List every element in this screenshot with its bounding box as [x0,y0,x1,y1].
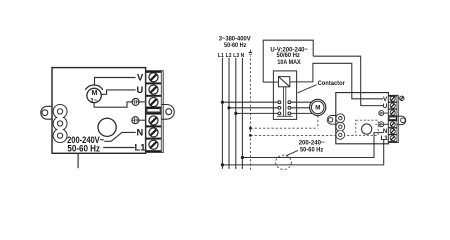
motor M 1~ [85,85,103,104]
svg-text:Contactor: Contactor [318,80,346,87]
jumper link in pole 4 [147,109,160,113]
svg-text:M: M [91,90,97,97]
earth symbol E2 (right) [379,122,389,127]
earth branch to motor (dashed) [250,127,318,129]
svg-text:50-60 Hz: 50-60 Hz [224,42,247,49]
svg-text:V: V [137,73,144,83]
earth symbol (supply) [249,50,253,57]
thermostat enclosure (right) [336,93,389,144]
junction dot earth-motor branch [249,127,252,130]
mounting ear (right thermostat) [327,116,336,125]
terminal block (left, 7 poles) [146,71,163,153]
supply line N [241,58,243,169]
knob (right) [362,124,372,134]
svg-text:50-60 Hz: 50-60 Hz [67,144,100,154]
wire V (motor top to terminal V) [95,78,136,86]
mounting tab right of terminal block [162,105,175,120]
contactor coil [279,77,290,87]
svg-text:10A MAX: 10A MAX [277,59,301,66]
svg-text:L1: L1 [218,53,224,59]
junction dot L3 tap [234,112,237,115]
contactor linkage [277,87,292,117]
wire U (motor right to terminal U) [101,90,136,94]
mounting ear left [41,106,53,119]
earth symbol E2 (circled, wired to terminal 5) [132,117,146,124]
supply line L3 [235,58,237,169]
earth branch to thermostat (dashed) [250,134,355,136]
svg-text:M: M [315,105,320,112]
mounting tab right of block (right) [397,116,406,125]
mains cable stub [77,153,79,168]
wire U (note box to thermostat U terminal) [313,56,383,105]
contactor box [273,71,296,120]
junction dot L2 tap [227,106,230,109]
supply line L2 [228,58,230,169]
svg-text:L1: L1 [135,142,146,152]
wire motor earth (motor bottom to earth symbol E1) [94,102,132,107]
phase wire L3 to contactor [236,112,280,114]
phase wire L1 to contactor [222,101,279,103]
junction dot L1 bottom tap [221,163,224,166]
svg-text:L1: L1 [381,135,389,142]
motor wires (contactor to motor) [291,102,313,113]
earth line (dashed vertical) [249,58,251,169]
screw terminals (V U earth - earth N L1) [149,73,158,150]
earth symbol E1 (circled, wired to terminal 3) [132,98,146,105]
supply wire N to thermostat [242,133,383,158]
junction dot earth-thermostat branch [249,134,252,137]
earth symbol E1 (right) [379,111,389,116]
terminal block (right, 7 poles) [388,95,398,142]
device enclosure (left thermostat) [52,68,146,154]
wire L1 (rating label to terminal L1) [103,147,134,149]
knob (setting dial) [98,118,116,136]
svg-text:50-60 Hz: 50-60 Hz [300,147,324,154]
wire coil feed (note box left leg to coil) [263,81,278,83]
motor earth drop (dashed) [317,116,319,129]
label Contactor + leader [297,80,345,93]
cable clamp strip (3 scallops) [53,105,67,143]
spec note box U-V:200-240~ 50/60 Hz 10A MAX [263,40,313,82]
svg-text:1~: 1~ [90,97,98,104]
spare screw [400,96,404,100]
motor M (3-phase) [310,99,326,115]
wire N (rating label to terminal N) [104,132,135,141]
dash link to earth E2 [375,123,378,125]
contactor contacts (3 poles) [278,101,291,115]
faceplate (dashed) [356,120,378,135]
wire V (coil return to thermostat V terminal) [290,63,383,99]
junction dot N tap [241,156,244,159]
jumper link (right block) [389,117,396,120]
svg-text:U: U [136,85,143,95]
supply line L1 [221,58,223,169]
svg-text:N: N [136,128,143,138]
supply wire L1 to thermostat [222,140,385,165]
svg-text:U: U [383,103,388,110]
junction dot L1 tap [221,101,224,104]
cable clamp strip (right) [336,114,345,139]
leader cable label [286,150,298,156]
svg-text:50/60 Hz: 50/60 Hz [277,52,300,59]
phase wire L2 to contactor [229,107,279,109]
cable marker (dashed circle) [276,155,292,169]
